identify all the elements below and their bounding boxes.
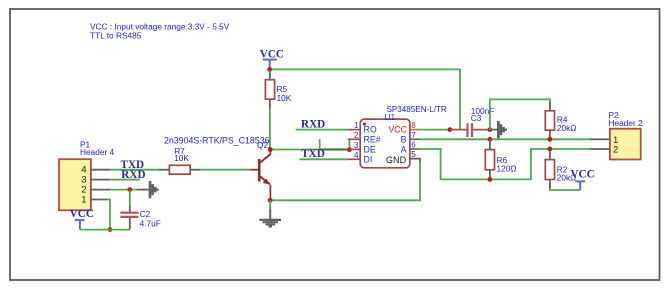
svg-text:A: A bbox=[401, 144, 407, 154]
svg-text:DE: DE bbox=[364, 144, 376, 154]
svg-text:VCC: VCC bbox=[260, 48, 284, 60]
svg-text:Header 2: Header 2 bbox=[609, 118, 644, 128]
resistor R4 bbox=[545, 102, 576, 139]
wire RE#-DE vertical bbox=[348, 139, 350, 149]
wire A net path bbox=[419, 149, 590, 179]
svg-text:B: B bbox=[401, 134, 407, 144]
svg-text:C2: C2 bbox=[140, 209, 151, 219]
svg-text:5: 5 bbox=[411, 150, 416, 159]
svg-text:RXD: RXD bbox=[301, 118, 325, 130]
node emitter junction bbox=[268, 198, 273, 203]
resistor R6 bbox=[485, 139, 516, 179]
connector P1 Header 4 bbox=[59, 140, 115, 211]
wire RO (RXD net) bbox=[296, 129, 348, 131]
ground arrow (at C3) bbox=[490, 121, 506, 138]
wire RXD stub bbox=[110, 179, 140, 181]
node R6 bottom bbox=[488, 177, 493, 182]
IC U1 SP3485EN-L/TR bbox=[360, 105, 447, 168]
wire P1 pin3 lead bbox=[91, 179, 110, 181]
node C3 left junction bbox=[448, 127, 453, 132]
svg-text:U1: U1 bbox=[385, 112, 396, 122]
wire pin2 to ground arrow bbox=[110, 189, 137, 191]
resistor R2 bbox=[545, 149, 576, 189]
ground arrow (at P1) bbox=[137, 181, 158, 198]
wire R4 top loop bbox=[490, 99, 550, 129]
svg-text:10K: 10K bbox=[277, 93, 292, 103]
svg-text:TTL to RS485: TTL to RS485 bbox=[90, 31, 142, 41]
pin 7 B bbox=[401, 131, 420, 145]
node pin3 junction bbox=[347, 147, 352, 152]
power flag VCC (R2) bbox=[570, 169, 594, 191]
wire GND pin5 path bbox=[410, 159, 420, 163]
connector P2 Header 2 bbox=[609, 110, 644, 160]
wire P2 pin2 lead bbox=[590, 148, 610, 150]
wire pin1 down to VCC rail bbox=[108, 200, 111, 230]
node collector junction bbox=[268, 147, 273, 152]
svg-text:VCC: VCC bbox=[70, 208, 94, 220]
node pin2 junction bbox=[127, 187, 132, 192]
wire P2 pin1 lead bbox=[590, 138, 610, 140]
svg-text:7: 7 bbox=[411, 131, 416, 140]
svg-text:1: 1 bbox=[81, 195, 86, 206]
node VCC rail junction bbox=[108, 227, 113, 232]
wire P1 pin4 lead bbox=[91, 169, 110, 171]
capacitor C2 4.7uF bbox=[120, 190, 160, 230]
svg-text:6: 6 bbox=[411, 141, 416, 150]
svg-text:3: 3 bbox=[354, 141, 359, 150]
wire VCC rail bottom-left bbox=[80, 229, 130, 231]
svg-text:120Ω: 120Ω bbox=[497, 163, 517, 173]
node R4 bottom bbox=[548, 137, 553, 142]
svg-text:RE#: RE# bbox=[364, 134, 381, 144]
svg-text:VCC: VCC bbox=[388, 125, 407, 135]
svg-text:20kΩ: 20kΩ bbox=[557, 123, 577, 133]
node C3 right junction bbox=[488, 127, 493, 132]
wire P1 pin1 lead bbox=[91, 199, 108, 201]
pin 5 GND bbox=[386, 150, 420, 165]
ground (earth) below Q2 bbox=[259, 200, 281, 226]
svg-text:8: 8 bbox=[411, 121, 416, 130]
svg-text:4.7uF: 4.7uF bbox=[140, 218, 161, 228]
pin 6 A bbox=[401, 141, 420, 155]
pin 3 DE bbox=[348, 141, 376, 155]
svg-text:2n3904S-RTK/PS_C18536: 2n3904S-RTK/PS_C18536 bbox=[164, 135, 270, 145]
svg-text:RO: RO bbox=[364, 125, 377, 135]
svg-text:Q2: Q2 bbox=[257, 140, 268, 150]
wire R5 bottom to collector node bbox=[269, 109, 271, 150]
wire P1 pin2 lead bbox=[91, 189, 110, 191]
pin 1 RO bbox=[348, 121, 377, 135]
capacitor C3 100nF bbox=[450, 106, 494, 137]
pin 8 VCC bbox=[388, 121, 420, 135]
svg-text:C3: C3 bbox=[471, 113, 482, 123]
svg-text:VCC: VCC bbox=[570, 169, 594, 181]
svg-text:2: 2 bbox=[613, 145, 618, 156]
node VCC/R5 junction bbox=[267, 67, 272, 72]
power flag VCC (P1) bbox=[70, 208, 94, 230]
wire VCC top rail bbox=[270, 69, 460, 129]
svg-text:2: 2 bbox=[354, 131, 359, 140]
node R2 top bbox=[548, 147, 553, 152]
wire DE net (collector to pin3) bbox=[270, 139, 349, 149]
power flag VCC top bbox=[260, 48, 284, 69]
svg-text:SP3485EN-L/TR: SP3485EN-L/TR bbox=[387, 105, 447, 114]
wire DI (TXD net) bbox=[300, 158, 348, 160]
resistor R7 bbox=[110, 146, 250, 174]
note text bbox=[90, 21, 230, 40]
wire R2 bottom to VCC flag bbox=[550, 189, 580, 190]
wire pin8 to C3 bbox=[419, 129, 450, 131]
pin 2 RE# bbox=[348, 131, 381, 145]
wire B net row bbox=[419, 138, 590, 140]
pin 4 DI bbox=[348, 151, 373, 165]
resistor R5 bbox=[265, 69, 291, 108]
svg-text:4: 4 bbox=[354, 151, 359, 160]
node R6 top bbox=[488, 137, 493, 142]
svg-text:GND: GND bbox=[386, 155, 407, 165]
svg-text:DI: DI bbox=[364, 154, 373, 164]
svg-text:Header 4: Header 4 bbox=[80, 147, 115, 157]
svg-text:1: 1 bbox=[354, 121, 359, 130]
svg-text:10K: 10K bbox=[174, 153, 189, 163]
transistor Q2 2n3904 bbox=[164, 135, 271, 200]
svg-text:TXD: TXD bbox=[301, 148, 325, 160]
